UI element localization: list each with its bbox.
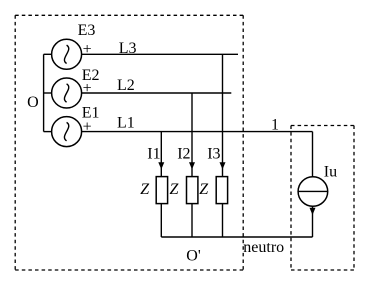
impedance Z1 rectangle: [156, 177, 167, 204]
current arrow I3: [220, 162, 226, 169]
wire: current source bottom to neutral: [312, 206, 314, 237]
svg-text:Z: Z: [170, 181, 180, 198]
wire: left bus vertical: [43, 54, 45, 131]
svg-text:Z: Z: [199, 181, 209, 198]
wire: branch 1 drop from L1: [160, 132, 162, 177]
svg-text:L2: L2: [117, 77, 135, 94]
wire: stub bus to E3: [44, 53, 52, 55]
svg-text:+: +: [83, 118, 92, 135]
impedance Z2 rectangle: [187, 177, 198, 204]
svg-text:E3: E3: [78, 22, 96, 39]
wire: branch 2 drop from L2: [191, 93, 193, 177]
svg-text:O: O: [27, 94, 39, 111]
AC source E3: [52, 39, 82, 69]
svg-text:neutro: neutro: [243, 239, 284, 256]
wire: branch 3 bottom to neutral: [222, 204, 224, 237]
main circuit dashed boundary box: [15, 15, 243, 270]
load dashed boundary box (right): [291, 126, 354, 271]
svg-text:L1: L1: [117, 114, 135, 131]
svg-text:L3: L3: [119, 40, 137, 57]
svg-text:+: +: [83, 41, 92, 58]
svg-text:I3: I3: [207, 145, 220, 162]
wire L1: [82, 131, 313, 133]
AC source E2: [52, 78, 82, 108]
current arrow I2: [189, 162, 195, 169]
wire: branch 3 drop from L3: [222, 54, 224, 176]
wire: neutral O' horizontal: [161, 236, 312, 238]
svg-text:Z: Z: [140, 181, 150, 198]
svg-text:I1: I1: [147, 145, 160, 162]
current arrow I1: [158, 162, 164, 169]
wire: stub bus to E2: [44, 92, 52, 94]
svg-text:O': O': [186, 247, 201, 264]
wire: stub bus to E1: [44, 131, 52, 133]
svg-text:I2: I2: [177, 145, 190, 162]
wire L3: [82, 53, 238, 55]
wire: branch 1 bottom to neutral: [160, 204, 162, 237]
AC source E1: [52, 117, 82, 147]
svg-text:Iu: Iu: [324, 163, 337, 180]
wire L2: [82, 92, 232, 94]
svg-text:+: +: [83, 80, 92, 97]
impedance Z3 rectangle: [216, 177, 227, 204]
wire: branch 2 bottom to neutral: [191, 204, 193, 237]
current source Iu: [298, 177, 328, 207]
svg-text:1: 1: [271, 117, 279, 134]
current arrow of Iu: [310, 208, 316, 215]
wire: drop from node 1 to current source: [312, 132, 314, 177]
